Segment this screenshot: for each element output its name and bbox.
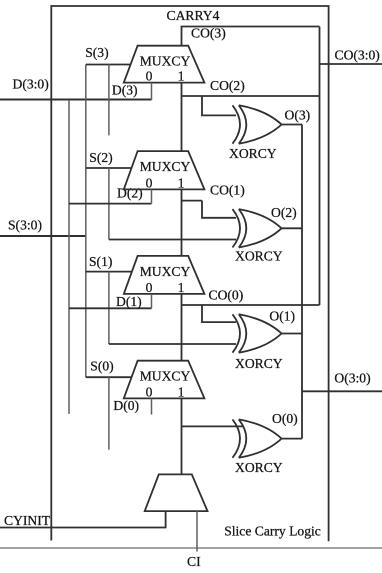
svg-text:O(2): O(2) (271, 205, 297, 221)
wire CO(0) jog into XORCY U5 (202, 305, 236, 322)
svg-text:D(3:0): D(3:0) (13, 77, 49, 93)
wire pin-0 stub MUXCY3 (151, 83, 153, 100)
mux MUXCY0 (124, 361, 205, 399)
wire pin-0 stub MUXCY0 (151, 398, 153, 414)
xor-gate XORCY U6 (233, 209, 282, 247)
svg-text:CO(1): CO(1) (210, 183, 245, 199)
svg-text:MUXCY: MUXCY (140, 369, 191, 384)
wire CI stub (196, 511, 198, 551)
svg-text:O(3:0): O(3:0) (334, 370, 370, 386)
svg-text:0: 0 (146, 69, 153, 84)
xor-gate XORCY U5 (233, 314, 282, 352)
wire S(0) select line (86, 376, 132, 378)
figure bottom rule (0, 547, 382, 549)
svg-text:D(0): D(0) (113, 398, 139, 414)
wire carry branch into XORCY U4 (182, 425, 244, 427)
svg-text:CI: CI (187, 554, 201, 569)
svg-text:1: 1 (178, 384, 185, 399)
wire CO(0) branch to CO rail (182, 304, 320, 306)
wire S(3) drop toward XORCY (108, 65, 110, 136)
svg-text:CYINIT: CYINIT (4, 513, 51, 528)
svg-text:S(1): S(1) (89, 254, 112, 270)
wire CO(3:0) output (320, 63, 382, 65)
wire pin-0 stub MUXCY1 (151, 294, 153, 308)
svg-text:XORCY: XORCY (235, 356, 283, 371)
wire S(1) drop toward XORCY (108, 272, 110, 344)
svg-text:1: 1 (178, 175, 185, 190)
wire S(0) drop toward XORCY (108, 377, 110, 450)
svg-text:CO(3:0): CO(3:0) (335, 48, 380, 64)
wire pin-0 stub MUXCY2 (151, 189, 153, 203)
xor-gate XORCY U4 (233, 419, 282, 457)
wire CO(2) branch to CO rail (182, 95, 320, 97)
wire D(2) line (69, 203, 152, 205)
wire CO(1) jog into XORCY U6 (202, 201, 236, 218)
wire O(3) output (282, 124, 303, 126)
wire O(2) output (282, 227, 303, 229)
svg-text:XORCY: XORCY (229, 146, 277, 161)
wire D distribution rail (68, 100, 70, 414)
CARRY4 block outline (open bottom) (51, 6, 328, 541)
wire CO(1) branch (182, 200, 203, 202)
svg-text:CO(0): CO(0) (209, 288, 244, 304)
wire carry riser MUXCY U1 to U2 (181, 189, 183, 256)
svg-text:S(3:0): S(3:0) (8, 218, 42, 234)
svg-text:O(1): O(1) (269, 309, 295, 325)
wire O(3:0) output (302, 390, 382, 392)
wire S(3:0) input bus (0, 235, 86, 237)
wire carry riser CYINIT mux to MUXCY U0 (181, 398, 183, 474)
svg-text:MUXCY: MUXCY (140, 264, 191, 279)
wire D(1) line (69, 307, 152, 309)
wire CO bus rail (319, 27, 321, 306)
svg-text:CO(2): CO(2) (210, 78, 245, 94)
svg-text:O(3): O(3) (285, 108, 311, 124)
svg-text:CARRY4: CARRY4 (167, 8, 220, 23)
svg-text:0: 0 (146, 175, 153, 190)
wire S distribution rail (85, 65, 87, 378)
svg-text:0: 0 (146, 280, 153, 295)
wire carry riser MUXCY U2 to U3 (181, 83, 183, 152)
wire CYINIT input (0, 511, 166, 527)
svg-text:MUXCY: MUXCY (140, 159, 191, 174)
svg-text:O(0): O(0) (272, 411, 298, 427)
wire O bus rail (301, 125, 303, 439)
mux MUXCY1 (124, 256, 205, 294)
xor-gate XORCY U7 (233, 105, 282, 143)
svg-text:D(2): D(2) (117, 186, 143, 202)
svg-text:Slice Carry Logic: Slice Carry Logic (224, 523, 321, 538)
wire CO(3) from MUXCY U3 to CO rail (182, 27, 320, 46)
svg-text:MUXCY: MUXCY (140, 54, 191, 69)
svg-text:CO(3): CO(3) (191, 26, 226, 42)
wire S(2) feed into XORCY U6 (109, 239, 236, 241)
wire O(0) output (282, 438, 303, 440)
mux CYINIT/CI select (145, 474, 208, 511)
svg-text:1: 1 (178, 280, 185, 295)
wire CO(2) jog into XORCY U7 (202, 96, 236, 115)
wire S(2) select line (86, 167, 132, 169)
wire S(2) drop toward XORCY (108, 168, 110, 240)
svg-text:XORCY: XORCY (235, 460, 283, 475)
svg-text:0: 0 (146, 384, 153, 399)
wire carry riser MUXCY U0 to U1 (181, 294, 183, 361)
svg-text:D(3): D(3) (112, 83, 138, 99)
svg-text:S(2): S(2) (89, 150, 112, 166)
mux MUXCY2 (124, 151, 205, 189)
wire O(1) output (282, 333, 303, 335)
wire S(3) select line (86, 64, 131, 66)
svg-text:XORCY: XORCY (235, 249, 283, 264)
svg-text:S(0): S(0) (90, 359, 113, 375)
svg-text:1: 1 (178, 69, 185, 84)
svg-text:D(1): D(1) (116, 294, 142, 310)
wire D(3:0) input bus (0, 98, 152, 100)
svg-text:S(3): S(3) (85, 45, 108, 61)
wire S(1) select line (86, 271, 132, 273)
mux MUXCY3 (124, 46, 205, 83)
wire S(1) feed into XORCY U5 (109, 343, 236, 345)
